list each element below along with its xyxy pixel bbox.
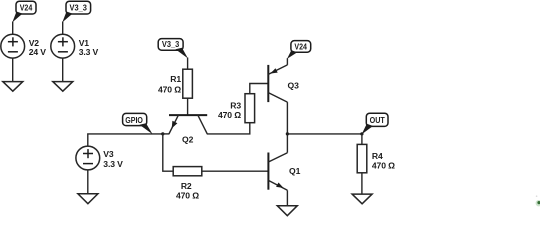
flag V24 (net label over Q3) — [287, 41, 311, 59]
flag V3_3 (net label over R1) — [158, 39, 188, 59]
svg-text:V3_3: V3_3 — [70, 2, 88, 12]
ground (Q1) — [277, 206, 297, 216]
svg-text:24 V: 24 V — [29, 47, 47, 57]
svg-text:V3: V3 — [103, 149, 114, 159]
resistor R2 470 ohm — [173, 167, 202, 201]
svg-text:V3_3: V3_3 — [162, 39, 180, 49]
voltage source V1 3.3 V — [51, 34, 99, 58]
svg-text:R4: R4 — [372, 151, 383, 161]
ground (R4) — [352, 194, 372, 204]
wire Q2 collector to R3 — [207, 123, 250, 134]
wire flag V24 to Q3 emitter — [286, 58, 288, 65]
wire output rail to OUT/R4 — [287, 133, 362, 135]
wire V1 minus to ground — [62, 58, 64, 82]
svg-text:470 Ω: 470 Ω — [218, 110, 241, 120]
flag V3_3 (net label over V1) — [62, 1, 90, 22]
svg-text:R3: R3 — [230, 100, 241, 110]
svg-text:470 Ω: 470 Ω — [372, 161, 395, 171]
wire junction to R4 — [361, 134, 363, 145]
wire flag V24 to V2 plus — [12, 22, 14, 35]
wire V2 minus to ground — [12, 58, 14, 82]
svg-text:3.3 V: 3.3 V — [79, 47, 99, 57]
wire R2 to Q1 base — [202, 170, 269, 172]
ground (V2) — [3, 82, 23, 92]
svg-text:OUT: OUT — [370, 115, 386, 125]
transistor Q2 (NPN, base up) — [169, 115, 207, 145]
wire R3 to Q3 base — [250, 84, 268, 94]
wire R4 to ground — [361, 173, 363, 194]
svg-text:Q1: Q1 — [289, 166, 301, 176]
svg-text:GPIO: GPIO — [125, 115, 143, 125]
flag OUT (net label) — [362, 113, 388, 134]
resistor R3 470 ohm — [218, 94, 255, 123]
resistor R4 470 ohm — [357, 144, 395, 172]
node GPIO junction — [161, 132, 164, 135]
transistor Q3 (PNP, emitter up) — [268, 65, 299, 102]
transistor Q1 (NPN, emitter down) — [268, 153, 300, 191]
wire Q3 collector down to Q1 collector — [286, 102, 288, 153]
wire Q1 emitter to ground — [286, 190, 288, 205]
wire flag V3_3 to V1 plus — [62, 22, 64, 35]
green marker bottom right — [536, 195, 540, 206]
flag V24 (net label over V2) — [12, 1, 36, 22]
svg-text:Q3: Q3 — [288, 81, 300, 91]
ground (V1) — [53, 82, 73, 92]
svg-text:R1: R1 — [170, 74, 181, 84]
node R4 junction — [360, 132, 363, 135]
voltage source V3 3.3 V — [76, 146, 123, 170]
wire flag V3_3 to R1 — [187, 58, 189, 70]
wire GPIO node down to R2 — [163, 134, 173, 171]
svg-text:470 Ω: 470 Ω — [158, 84, 181, 94]
svg-text:Q2: Q2 — [182, 135, 194, 145]
svg-text:3.3 V: 3.3 V — [103, 159, 123, 169]
svg-text:V24: V24 — [20, 2, 33, 12]
voltage source V2 24 V — [1, 34, 46, 58]
svg-text:V24: V24 — [294, 42, 307, 52]
svg-text:470 Ω: 470 Ω — [176, 190, 199, 200]
resistor R1 470 ohm — [158, 69, 192, 98]
flag GPIO (net label) — [123, 113, 153, 134]
ground (V3) — [78, 194, 98, 204]
wire V3 minus to ground — [87, 170, 89, 194]
wire R1 to Q2 base — [187, 98, 189, 115]
wire Q2 emitter to GPIO node — [163, 133, 170, 135]
wire V3 plus up and right to GPIO node — [88, 134, 163, 146]
node OUT rail junction — [286, 132, 289, 135]
